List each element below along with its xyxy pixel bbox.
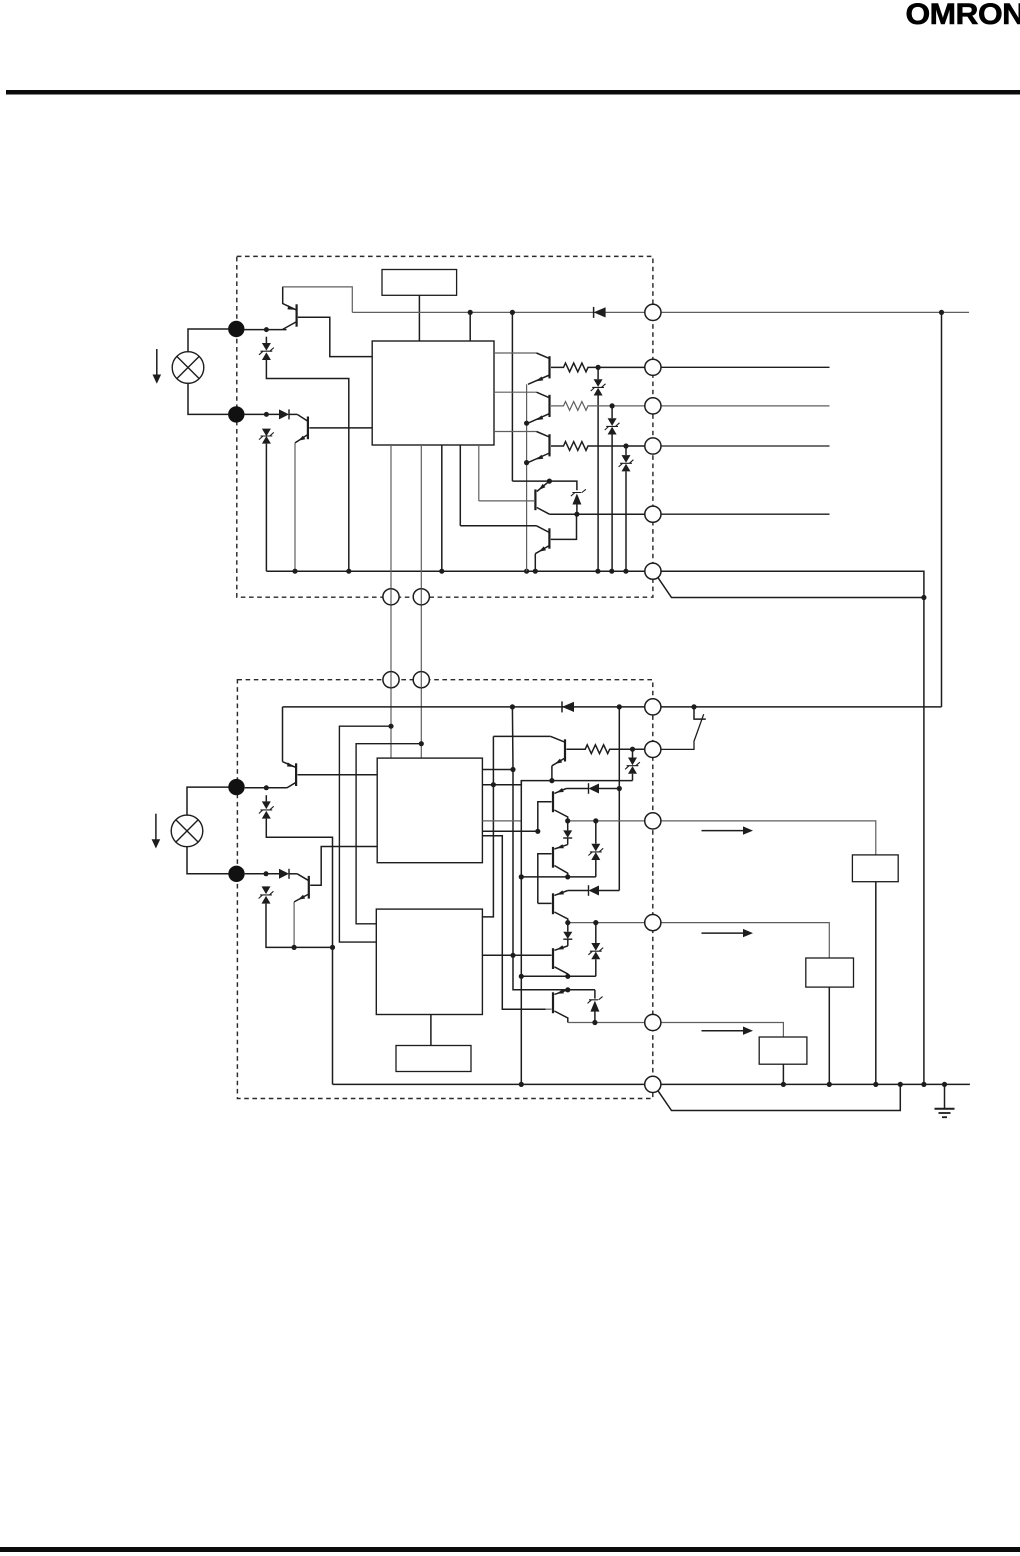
- junction: [264, 785, 269, 790]
- transistor T5 (output, third row): [494, 432, 550, 463]
- wire Q2b base to U2: [310, 847, 377, 886]
- dashed enclosure (top unit): [237, 256, 653, 597]
- T6 emitter row to terminal: [549, 513, 644, 515]
- coil terminal node (top -): [228, 406, 244, 422]
- output row 1 (to terminal 3): [568, 820, 645, 822]
- switch S1 (between terminals 1-2): [661, 707, 706, 750]
- resistor R3b: [566, 745, 644, 754]
- wire label-box stem: [418, 295, 420, 341]
- common wire from terminal 6 (top unit): [661, 571, 924, 1084]
- transistor T6: [479, 481, 550, 514]
- transistor T3 (output, top row): [494, 353, 550, 384]
- zener ZB column: [588, 923, 603, 977]
- current arrow 2: [702, 929, 754, 937]
- current arrow (top left): [153, 349, 162, 384]
- zener Z1b (bottom): [259, 795, 333, 1084]
- coil pin taps to U3: [339, 726, 391, 942]
- zener Z3 column: [591, 365, 606, 571]
- load resistor box L2: [806, 958, 854, 987]
- wire label-box stem (bottom): [430, 1015, 432, 1046]
- transistor TC: [538, 890, 568, 922]
- terminal 5: [645, 506, 661, 522]
- transistor Q1b (bottom left PNP): [283, 707, 297, 788]
- output row stubs beyond terminals (top unit): [661, 366, 830, 368]
- top supply rail (gray): [352, 311, 969, 313]
- diode D2 on top rail (points left): [594, 307, 606, 318]
- coil pin A: [383, 589, 399, 605]
- feed wire x=619: [618, 707, 620, 891]
- U1 bottom pin leads: [441, 445, 443, 571]
- OMRON logo: [906, 0, 1020, 31]
- transistor T4 (output, second row): [494, 392, 550, 423]
- zener Z3b column: [625, 747, 640, 781]
- diode row 2 (points left): [568, 885, 620, 896]
- zener Z6 (up-pointing): [571, 489, 586, 514]
- pin wires drawn through their circles: [391, 589, 421, 605]
- U2 right lead 2 (with jog): [482, 781, 632, 785]
- terminal 1: [645, 304, 661, 320]
- terminal 3b: [645, 813, 661, 829]
- terminal 6: [645, 563, 661, 579]
- U2 right lead 1: [482, 769, 513, 771]
- diode D3 on rail (points left): [562, 701, 574, 712]
- terminal 4: [645, 438, 661, 454]
- transistor T7: [460, 514, 576, 571]
- junctions on top rail: [468, 310, 945, 315]
- junctions on Q2b emitter return: [292, 945, 336, 950]
- transistor Q2 (top left NPN): [295, 414, 308, 571]
- terminal circles (bottom unit): [383, 672, 661, 1093]
- transistor Q1 (top left PNP): [283, 287, 297, 330]
- T6 collector row wire: [512, 481, 577, 490]
- terminal 3: [645, 398, 661, 414]
- coil pin A bottom: [383, 672, 399, 688]
- zener ZA column: [588, 821, 603, 877]
- resistor R3: [551, 363, 645, 372]
- diode column (TA to TB): [563, 821, 572, 845]
- oscillator label box (bottom): [396, 1046, 471, 1072]
- control IC block U2 (bottom upper): [377, 758, 482, 863]
- wire node2 to diode (bottom): [245, 873, 279, 875]
- external load row 3 (terminal 5): [661, 1023, 784, 1038]
- terminal 5b: [645, 1014, 661, 1030]
- zener Z1 (top): [259, 337, 349, 572]
- ground symbol: [935, 1084, 955, 1117]
- current arrow 3: [702, 1027, 754, 1035]
- wire lamp to coil terminals (top): [188, 329, 228, 414]
- zener Z5 column: [619, 443, 634, 571]
- transistor Q2b (bottom left NPN): [294, 874, 309, 948]
- long feed wire right side (to lower unit): [941, 312, 943, 707]
- wire node to Q1b: [245, 787, 287, 789]
- junctions on rail: [510, 704, 697, 709]
- output row 3 (to terminal 5): [568, 1022, 645, 1024]
- zener Z2 (top): [259, 429, 274, 572]
- diode column (TC to TD): [563, 923, 572, 946]
- U2 right lead 4: [482, 830, 537, 832]
- footer rule: [0, 1547, 1020, 1552]
- lamp load symbol (bottom): [171, 815, 203, 847]
- U3 feedback wire: [482, 736, 493, 917]
- wire rail drop to T6 collector row: [511, 312, 513, 481]
- current arrow 1: [702, 826, 754, 834]
- resistor R4: [551, 402, 645, 411]
- vertical bus x=521: [520, 781, 522, 1085]
- terminal 2b: [645, 741, 661, 757]
- wire node2 to diode: [244, 413, 279, 415]
- load resistor box L1: [852, 855, 898, 882]
- wire Q1 emitter to top rail: [283, 287, 353, 313]
- header rule: [6, 90, 1020, 95]
- zener Z2b (bottom): [259, 886, 333, 947]
- wire Q2 base to U1: [309, 427, 372, 429]
- junction: [264, 412, 269, 417]
- coil terminal node (bottom -): [228, 866, 244, 882]
- pin wires drawn through their circles: [391, 672, 421, 688]
- wire Q1 base to U1: [298, 317, 372, 356]
- feed wire from rail down middle: [512, 707, 595, 990]
- junction: [264, 327, 269, 332]
- dashed enclosure (bottom unit): [237, 680, 652, 1099]
- supply rail (bottom unit): [283, 706, 942, 708]
- emitter row 2: [521, 975, 596, 977]
- wire node to Q1: [244, 329, 286, 331]
- junction dots on rail: [292, 569, 628, 574]
- external load row 1 (terminal 3): [661, 821, 876, 855]
- current arrow (bottom left): [152, 814, 161, 849]
- internal ground rail (top unit): [266, 570, 644, 572]
- terminal 1b: [645, 699, 661, 715]
- transistor TD: [482, 945, 567, 976]
- transistor T3b (bottom first output): [493, 736, 565, 780]
- terminal 6b: [645, 1076, 661, 1092]
- U2 right lead 3: [482, 820, 521, 822]
- resistor R5: [551, 442, 645, 451]
- coil pin feedthrough wires (top unit to bottom unit): [390, 445, 392, 758]
- emitter row 1: [521, 876, 596, 878]
- wire lamp to coil terminals (bottom): [187, 787, 229, 874]
- control IC block U3 (bottom lower): [376, 909, 482, 1014]
- lamp load symbol (top): [172, 352, 204, 384]
- ground rail (bottom unit): [333, 1083, 970, 1085]
- diode D1 (top, series with Q2): [279, 409, 297, 419]
- oscillator label box (top): [382, 270, 457, 296]
- transistor TA: [538, 788, 568, 831]
- load resistor box L3: [759, 1037, 807, 1064]
- junction: [264, 871, 269, 876]
- terminal circles (top unit): [383, 304, 661, 605]
- coil terminal node (top +): [228, 321, 244, 337]
- coil pin B: [413, 589, 429, 605]
- external load row 2 (terminal 4): [661, 923, 830, 958]
- coil terminal node (bottom +): [228, 779, 244, 795]
- diode D4 (bottom, series with Q2b): [279, 869, 297, 879]
- wire Q1b base to U2: [298, 774, 378, 776]
- wire rail drop to U1 top: [469, 312, 471, 341]
- svg-text:OMRON: OMRON: [906, 0, 1020, 31]
- coil pin B bottom: [413, 672, 429, 688]
- terminal 4b: [645, 915, 661, 931]
- diode row 1 (points left): [566, 783, 619, 794]
- U2 right lead 5 (to TE base): [482, 836, 545, 1010]
- output row 2 (to terminal 4): [568, 922, 645, 924]
- common wire from terminal 6 (bottom unit): [658, 1084, 901, 1110]
- zener Z4 column: [605, 403, 620, 571]
- transistor TB: [538, 844, 568, 903]
- terminal 2: [645, 359, 661, 375]
- control IC block U1 (top): [372, 341, 494, 445]
- transistor TE: [546, 989, 568, 1022]
- emitter chain wire (T3,T4,T5): [526, 384, 528, 571]
- zener ZE (module 3): [588, 990, 603, 1023]
